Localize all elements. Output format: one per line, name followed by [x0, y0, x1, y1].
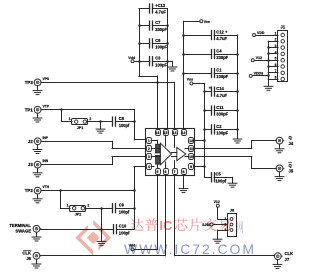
svg-text:C14: C14 [216, 86, 224, 91]
svg-text:IC: IC [159, 218, 173, 233]
svg-text:2: 2 [87, 203, 89, 207]
resistor R inside IC lower [156, 155, 160, 164]
svg-text:JP2: JP2 [75, 212, 82, 216]
capacitor C3 100pF [139, 56, 168, 68]
svg-text:TP2: TP2 [25, 188, 34, 193]
svg-text:C7: C7 [155, 20, 161, 25]
svg-text:100pF: 100pF [155, 45, 167, 50]
wire TP2 branch to JP2 [61, 191, 71, 209]
wire JP2 to C9 [86, 207, 113, 210]
svg-text:2: 2 [89, 117, 91, 121]
wire ground bus right of C13-C3 to IC pin 15 [166, 9, 169, 129]
IC top pins 16 15 14 13 [156, 130, 187, 136]
connector J8 [224, 207, 236, 236]
wire SJ40 to J8 pin 2 [213, 224, 228, 226]
wire Vss bus [193, 83, 206, 177]
wire J1 ground stem [268, 79, 270, 81]
wire IC internal links [166, 135, 189, 168]
wire JP2 ground stem [100, 208, 103, 236]
svg-text:TP3: TP3 [25, 80, 34, 85]
svg-text:1: 1 [148, 139, 150, 143]
connector TP1 [25, 104, 50, 122]
wire JP1 to C8 [88, 120, 113, 123]
wire J3 INN to IC pin 3 [41, 157, 146, 165]
svg-text:1: 1 [275, 31, 277, 35]
connector J3 [28, 159, 49, 177]
svg-text:J6: J6 [26, 256, 31, 261]
terminal Vdd [128, 56, 139, 63]
svg-text:J3: J3 [28, 162, 33, 167]
svg-text:1: 1 [67, 203, 69, 207]
svg-text:VTH: VTH [43, 185, 50, 189]
svg-text:4.7uF: 4.7uF [216, 93, 227, 98]
svg-text:15: 15 [164, 131, 168, 135]
wire IC pin 5 to Vdd terminal [134, 176, 158, 250]
svg-text:Q: Q [289, 135, 293, 140]
connector J4 Q [275, 135, 294, 153]
svg-text:4.7uF: 4.7uF [216, 36, 227, 41]
svg-text:13: 13 [182, 131, 186, 135]
terminal SJ40 [202, 223, 213, 227]
wire IC internal input stubs [151, 140, 160, 168]
IC right pins 12 11 10 9 [189, 138, 194, 170]
watermark red text [131, 218, 244, 233]
svg-text:C2: C2 [216, 124, 222, 129]
resistor R inside IC upper [156, 144, 160, 153]
connector J6 CLK [22, 250, 41, 268]
svg-text:100pF: 100pF [155, 62, 167, 67]
wire Q output to J4 [193, 141, 276, 149]
svg-text:V12: V12 [214, 200, 220, 204]
wire Vdd bus left of C13-C3 [138, 9, 141, 77]
svg-text:330pF: 330pF [155, 27, 167, 32]
terminal Vdd bottom [129, 244, 136, 251]
svg-text:Vdd: Vdd [128, 56, 135, 60]
IC left pins 1 2 3 4 [147, 138, 152, 170]
svg-text:Vee: Vee [204, 20, 210, 24]
wire J2 INP to IC pin 2 [41, 141, 146, 148]
capacitor C9 100pf [113, 203, 135, 215]
IC bottom pins 5 6 7 8 [156, 169, 187, 175]
wire JP1 ground stem [100, 122, 102, 125]
wire ground stub [168, 61, 173, 62]
svg-text:V12: V12 [256, 56, 262, 60]
svg-text:6: 6 [165, 170, 167, 174]
wire IC pin 12 to Vss bus [193, 140, 204, 142]
terminal Vee [200, 20, 210, 24]
wire Qbar output to J5 [193, 157, 276, 169]
capacitor C11 330pF [205, 105, 238, 117]
ground below C3 [168, 62, 177, 71]
svg-text:Vss: Vss [187, 78, 193, 82]
comparator triangle inside IC [177, 147, 186, 160]
capacitor C4 330pF [184, 48, 238, 60]
svg-text:7: 7 [174, 170, 176, 174]
svg-text:C5: C5 [216, 172, 222, 177]
capacitor C6 100pF [139, 38, 168, 50]
ground below JP2 [97, 237, 106, 246]
svg-text:C1: C1 [216, 67, 222, 72]
svg-text:100pf: 100pf [119, 123, 130, 128]
wire C5 ground stem [232, 177, 234, 178]
terminal V12 J1 [251, 56, 268, 62]
svg-text:INP: INP [43, 136, 49, 140]
svg-text:8: 8 [183, 170, 185, 174]
wire J1 ground bus pins 2-8 [267, 41, 278, 79]
connector TP3 [25, 77, 50, 95]
capacitor C1 100pF [184, 67, 238, 79]
svg-text:J5: J5 [289, 169, 294, 174]
svg-text:TP1: TP1 [25, 107, 34, 112]
svg-text:10: 10 [189, 155, 193, 159]
svg-text:CLK: CLK [22, 250, 31, 255]
svg-text:100pF: 100pF [216, 131, 228, 136]
wire TP1 to IC pin 1 [41, 108, 146, 140]
wire IC pin 4 bus down [133, 166, 146, 229]
svg-text:J7: J7 [285, 257, 290, 262]
svg-text:C6: C6 [155, 38, 161, 43]
capacitor C5 100pf [205, 172, 233, 184]
svg-text:1: 1 [69, 117, 71, 121]
svg-text:100pf: 100pf [119, 209, 130, 214]
svg-text:3: 3 [148, 155, 150, 159]
connector J7 CLK [273, 251, 293, 268]
wire TP1 branch to JP1 [62, 110, 73, 122]
svg-text:100pf: 100pf [119, 230, 130, 235]
terminal Vss [187, 78, 193, 85]
jumper JP1 [69, 117, 92, 130]
svg-text:J1: J1 [280, 25, 285, 30]
svg-text:SWAGE: SWAGE [15, 229, 31, 234]
svg-text:100pF: 100pF [216, 74, 228, 79]
svg-text:VPS: VPS [43, 77, 50, 81]
svg-text:VDD: VDD [257, 31, 265, 35]
capacitor C10 100pf [114, 224, 135, 236]
watermark logo diamond [75, 220, 111, 256]
terminal VDD3 J1 [249, 72, 270, 78]
svg-text:J8: J8 [230, 207, 235, 212]
terminal V12 at J8 [214, 200, 220, 207]
svg-text:5: 5 [157, 170, 159, 174]
wire ground bus right of caps [236, 35, 239, 134]
svg-text:16: 16 [156, 131, 160, 135]
wire Vee bus to IC pin 13 [182, 21, 200, 128]
svg-text:CLK: CLK [285, 251, 294, 256]
watermark blue url text [124, 241, 254, 257]
svg-text:J2: J2 [28, 139, 33, 144]
ground below cap bus [233, 134, 242, 143]
ground at JP1 [96, 124, 105, 133]
capacitor C12 4.7uF [184, 29, 238, 41]
wire IC pin 7 to J7 CLK [175, 176, 275, 256]
jumper JP2 [67, 203, 90, 216]
svg-text:JP1: JP1 [77, 126, 84, 130]
svg-text:INN: INN [43, 159, 49, 163]
capacitor C7 330pF [139, 20, 168, 32]
svg-text:C11: C11 [216, 105, 224, 110]
wire V12 to J8 pin 1 [218, 207, 228, 219]
svg-text:8: 8 [275, 76, 277, 80]
svg-text:TERMINAL: TERMINAL [9, 223, 31, 228]
capacitor C13 4.7uF [139, 3, 168, 15]
svg-text:14: 14 [173, 131, 177, 135]
connector J1 [275, 25, 288, 82]
wire J8 pin 3 to ground [218, 230, 228, 234]
connector J5 Qbar [275, 163, 294, 181]
wire IC pin 6 to J6 CLK [40, 176, 165, 256]
terminal VDD J1 pin1 [253, 31, 279, 37]
svg-text:12: 12 [189, 139, 193, 143]
wire IC pin 9 to Vss bus [193, 166, 204, 168]
svg-text:330pF: 330pF [216, 112, 228, 117]
svg-text:Vdd: Vdd [129, 244, 136, 248]
svg-text:J4: J4 [289, 141, 294, 146]
svg-text:4: 4 [148, 165, 150, 169]
svg-text:C10: C10 [119, 224, 127, 229]
op-amp triangle inside IC [160, 143, 171, 165]
capacitor C8 100pf [113, 116, 135, 128]
svg-text:100pf: 100pf [216, 178, 227, 183]
wire VPS rail from TP3 [41, 82, 174, 128]
svg-text:SJ40: SJ40 [202, 223, 210, 227]
svg-text:330pF: 330pF [216, 55, 228, 60]
wire TERMINAL SWAGE row [40, 229, 113, 231]
IC U1 body [146, 129, 195, 176]
ground below C5 [228, 178, 237, 187]
capacitor C2 100pF [205, 124, 238, 136]
connector J2 [28, 136, 49, 154]
svg-text:2: 2 [148, 147, 150, 151]
svg-text:+C13: +C13 [155, 3, 166, 8]
connector TP2 [25, 185, 50, 203]
connector TERMINAL SWAGE [9, 223, 41, 241]
wire Vdd bus corner to IC pin 16 [139, 76, 159, 129]
svg-text:C9: C9 [119, 203, 125, 208]
svg-text:Q: Q [289, 163, 293, 168]
ground below J8 [213, 234, 222, 243]
svg-text:C4: C4 [216, 48, 222, 53]
wire IC pin 8 ground stem [183, 176, 185, 184]
svg-text:VTP: VTP [43, 104, 50, 108]
wire TP2 to bus [41, 189, 134, 192]
svg-text:9: 9 [190, 165, 192, 169]
svg-text:C12 +: C12 + [216, 29, 228, 34]
svg-text:11: 11 [189, 147, 193, 151]
svg-text:C8: C8 [119, 116, 125, 121]
ground below J1 [264, 82, 273, 91]
ground below IC pin 8 [179, 184, 188, 193]
svg-text:C3: C3 [155, 56, 161, 61]
svg-text:4.7uF: 4.7uF [155, 10, 166, 15]
svg-text:1: 1 [224, 217, 226, 221]
capacitor C14 4.7uF [205, 85, 238, 97]
